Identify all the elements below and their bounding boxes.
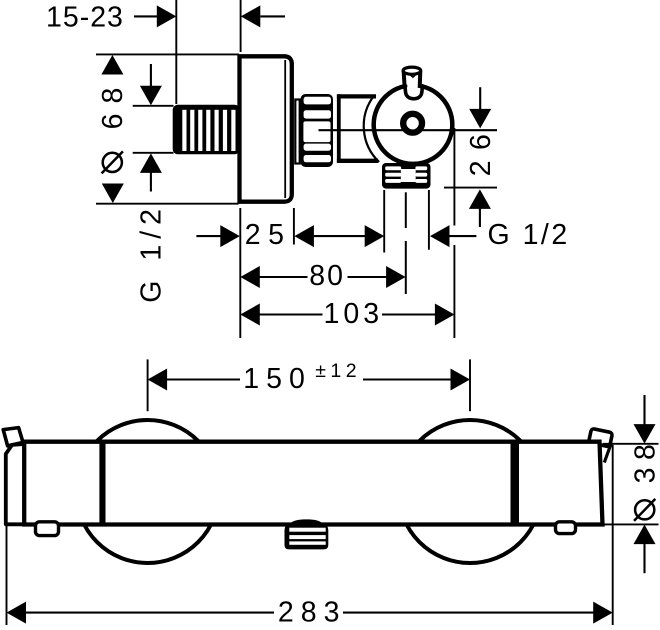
thermostat head (circle) <box>374 86 453 164</box>
dim D38 arrow down <box>634 395 656 444</box>
dim 26 arrow up <box>469 189 491 227</box>
right wall-mount clip (tilted) <box>589 428 613 447</box>
dim G1/2 outlet arrow right-outside <box>430 225 476 247</box>
extension line thread tip <box>175 0 177 104</box>
svg-text:25: 25 <box>245 219 292 251</box>
left end cap <box>6 444 26 524</box>
left supply escutcheon circle <box>76 420 219 563</box>
valve body housing <box>341 99 376 159</box>
dim G1/2 thread arrow up <box>140 153 162 191</box>
right bottom clip <box>556 522 576 534</box>
extension line thread top <box>133 105 174 107</box>
dim 283 line with arrows <box>7 602 613 624</box>
extension line head front (lower) <box>453 245 455 338</box>
extension line escutcheon face bottom <box>239 208 241 338</box>
extension line head front (upper) <box>453 128 455 226</box>
svg-text:26: 26 <box>465 124 497 177</box>
dim 15-23 arrow right-pointing <box>157 5 177 27</box>
extension line escutcheon top <box>96 53 239 55</box>
dim G1/2 outlet arrow left-outside <box>365 225 385 247</box>
knurled connection nut <box>301 94 337 167</box>
svg-text:G 1/2: G 1/2 <box>488 219 570 251</box>
dim 25 arrow right-outside <box>294 225 314 247</box>
outlet axis line right <box>444 187 497 189</box>
extension line escutcheon back <box>293 208 295 245</box>
right supply escutcheon circle <box>399 420 542 563</box>
centerline <box>319 129 498 131</box>
svg-text:80: 80 <box>309 260 345 292</box>
svg-text:±12: ±12 <box>315 360 361 382</box>
center shower hose outlet <box>285 519 329 549</box>
wall escutcheon disc (side view) <box>240 56 292 201</box>
dim 103 line with arrows <box>240 304 454 326</box>
wall supply threaded pipe G1/2 <box>173 105 240 154</box>
head rear edge arc <box>364 96 379 162</box>
collar between escutcheon and nut <box>295 100 299 164</box>
extension line thread bottom <box>133 152 174 154</box>
dim 150 line with arrows <box>148 369 470 391</box>
extension line escutcheon face top <box>240 0 242 52</box>
extension line bar bottom right <box>603 523 659 525</box>
dim 80 line with arrows <box>240 266 405 288</box>
svg-text:15-23: 15-23 <box>46 2 124 34</box>
svg-text:150: 150 <box>243 363 312 395</box>
svg-text:283: 283 <box>278 596 347 628</box>
left bottom clip <box>36 522 59 536</box>
outlet centerline (dashed) <box>405 192 407 228</box>
dim D68 arrow up <box>101 55 123 75</box>
extension line bar left end <box>6 455 8 625</box>
extension line right valve center <box>469 359 471 411</box>
right clip lower edge <box>604 443 611 463</box>
dim 15-23 tail right <box>260 15 285 17</box>
left valve joint (thick divider) <box>99 440 105 525</box>
extension line left valve center <box>147 359 149 411</box>
right valve joint (thick divider) <box>511 440 520 525</box>
dim D38 arrow up <box>634 525 656 574</box>
dim 25 arrow left-outside <box>196 225 239 247</box>
dim D68 arrow down <box>102 184 124 204</box>
dim 26 arrow down <box>469 87 491 128</box>
escutcheon face chamfer line <box>284 60 286 198</box>
svg-text:G 1/2: G 1/2 <box>136 203 168 303</box>
svg-text:38: 38 <box>630 437 660 484</box>
mixer bar body <box>24 442 602 525</box>
extension line escutcheon bottom <box>96 203 239 205</box>
left wall-mount clip (tilted) <box>3 428 23 446</box>
extension line outlet right <box>428 190 430 250</box>
diverter knob on top <box>403 67 421 88</box>
handle hub ring <box>403 114 422 133</box>
extension line bar right end <box>612 445 614 625</box>
shared tail between dims <box>314 235 366 237</box>
shower outlet connection nuts (below head) <box>382 163 431 189</box>
dim 15-23 arrow left-pointing <box>241 5 260 27</box>
extension line bar top right <box>603 443 659 445</box>
svg-text:68: 68 <box>97 78 129 130</box>
svg-text:103: 103 <box>324 298 384 330</box>
BOTTOM DRAWING (front view of shower bar) <box>3 359 660 628</box>
dim G1/2 thread arrow down <box>140 64 162 105</box>
extension line outlet left <box>383 190 385 253</box>
grip notch on head top <box>405 86 423 99</box>
TOP DRAWING (side view of thermostat valve) <box>46 0 570 338</box>
dim 15-23 leader left <box>134 15 157 17</box>
